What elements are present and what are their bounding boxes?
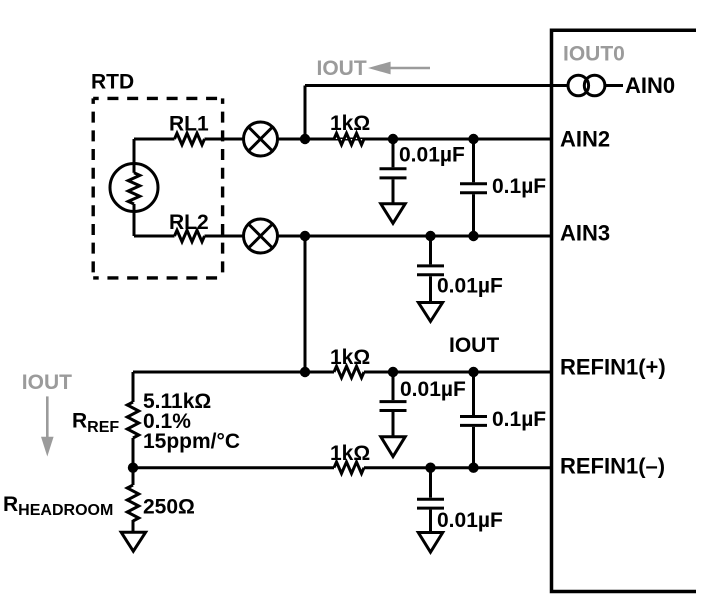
- wire RL2 to mux switch: [205, 235, 244, 238]
- svg-text:IOUT: IOUT: [449, 334, 499, 357]
- wire resistor to REFIN1+ pin: [364, 371, 552, 374]
- wire R_HEADROOM top: [132, 468, 135, 485]
- gray arrow left (top IOUT): [368, 62, 430, 75]
- svg-text:AIN0: AIN0: [625, 73, 675, 98]
- ground under C6: [418, 533, 442, 553]
- resistor 1kΩ AIN2: [334, 133, 364, 145]
- resistor 1kΩ REFIN1-: [334, 462, 364, 474]
- ADC box U1: [552, 30, 697, 591]
- ground under R_HEADROOM: [121, 532, 145, 551]
- wire RTD top to RL1 line: [133, 139, 136, 173]
- wire AIN0 horizontal: [305, 84, 569, 87]
- svg-text:RL1: RL1: [169, 113, 209, 136]
- junction dot REFIN1+ cap: [388, 367, 398, 377]
- wire REFIN1+ line left: [133, 371, 334, 374]
- svg-text:0.1µF: 0.1µF: [492, 175, 546, 198]
- svg-text:250Ω: 250Ω: [143, 496, 195, 519]
- wire R_REF top: [132, 372, 135, 402]
- svg-text:REFIN1(–): REFIN1(–): [560, 454, 665, 479]
- junction dot REFIN1+ 0.1uF: [468, 367, 478, 377]
- capacitor C4 0.01uF at REFIN1+: [380, 372, 407, 436]
- capacitor C2 0.1uF between AIN2 and AIN3: [460, 139, 487, 236]
- wire AIN3 line left: [134, 235, 175, 238]
- capacitor C6 0.01uF at REFIN1-: [417, 468, 444, 533]
- svg-text:AIN3: AIN3: [560, 221, 610, 246]
- wire AIN2 line left: [134, 138, 175, 141]
- ground under C1: [381, 204, 405, 224]
- junction dot AIN2/IOUT branch: [300, 134, 310, 144]
- gray arrow down (bottom IOUT): [41, 396, 54, 456]
- current source symbol (double circle) at AIN0: [568, 75, 605, 96]
- resistor R_REF 5.11k: [127, 402, 139, 438]
- wire mux to AIN3 pin: [278, 235, 552, 238]
- wire RL1 to mux switch: [205, 138, 244, 141]
- capacitor C3 0.01uF at AIN3: [417, 236, 444, 301]
- junction dot AIN2 0.1uF: [468, 134, 478, 144]
- RTD sensor circle: [110, 164, 158, 212]
- wire resistor to REFIN1- pin: [364, 466, 552, 469]
- junction dot AIN3 0.1uF: [468, 231, 478, 241]
- junction dot AIN2 cap: [388, 134, 398, 144]
- wire R_HEADROOM bottom: [132, 520, 135, 532]
- RTD sensor inner zigzag: [128, 173, 140, 204]
- dashed box around RTD: [93, 98, 222, 278]
- svg-text:0.01µF: 0.01µF: [400, 378, 466, 401]
- junction dot REFIN1- cap: [425, 463, 435, 473]
- mux switch (crossed circle) on AIN2 line: [244, 122, 278, 156]
- wire mux to AIN2 pin: [278, 138, 552, 141]
- svg-text:IOUT: IOUT: [317, 57, 367, 80]
- svg-text:0.1µF: 0.1µF: [492, 408, 546, 431]
- svg-text:0.01µF: 0.01µF: [437, 509, 503, 532]
- svg-text:RTD: RTD: [91, 71, 134, 94]
- svg-text:0.01µF: 0.01µF: [437, 275, 503, 298]
- wire REFIN1- line: [133, 466, 334, 469]
- wire from current source to AIN0 label: [605, 84, 623, 87]
- resistor R_HEADROOM 250: [127, 485, 139, 521]
- wire RTD bottom to RL2 line: [133, 204, 136, 236]
- svg-text:0.01µF: 0.01µF: [399, 144, 465, 167]
- junction dot REFIN1- 0.1uF: [468, 463, 478, 473]
- ground under C4: [381, 437, 405, 457]
- ground under C3: [418, 303, 442, 322]
- svg-text:REFIN1(+): REFIN1(+): [560, 355, 666, 380]
- svg-text:RL2: RL2: [169, 211, 209, 234]
- capacitor C1 0.01uF at AIN2: [380, 139, 407, 203]
- wire vertical from AIN3 line to REFIN1+ line: [304, 236, 307, 372]
- svg-text:RHEADROOM: RHEADROOM: [3, 493, 113, 519]
- svg-text:15ppm/°C: 15ppm/°C: [143, 430, 240, 453]
- resistor RL1: [175, 133, 205, 145]
- junction dot REFIN1+ branch: [300, 367, 310, 377]
- junction dot REFIN1- left: [128, 463, 138, 473]
- svg-text:IOUT0: IOUT0: [563, 43, 625, 66]
- junction dot AIN3 cap: [425, 231, 435, 241]
- svg-text:IOUT: IOUT: [22, 371, 72, 394]
- resistor 1kΩ REFIN1+: [334, 366, 364, 378]
- wire R_REF bottom to REFIN1- line: [132, 438, 135, 468]
- capacitor C5 0.1uF between REFIN1+ and REFIN1-: [460, 372, 487, 468]
- svg-text:AIN2: AIN2: [560, 127, 610, 152]
- wire vertical from AIN0 line to AIN2 line: [304, 86, 307, 140]
- junction dot AIN3 branch down: [300, 231, 310, 241]
- mux switch (crossed circle) on AIN3 line: [244, 219, 278, 253]
- svg-text:RREF: RREF: [72, 410, 119, 437]
- resistor RL2: [175, 230, 205, 242]
